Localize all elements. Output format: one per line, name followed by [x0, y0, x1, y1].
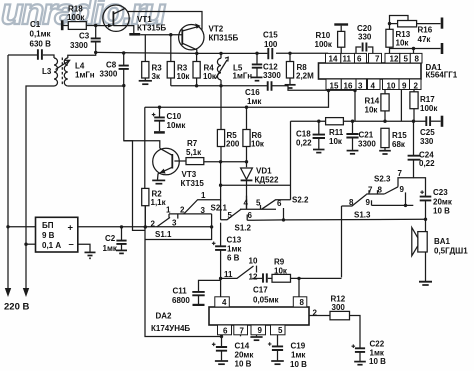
svg-text:C3: C3	[79, 32, 90, 41]
svg-text:630 В: 630 В	[30, 40, 52, 49]
svg-text:L4: L4	[75, 62, 85, 71]
svg-text:100к: 100к	[67, 13, 85, 22]
svg-text:0,22: 0,22	[419, 159, 435, 168]
svg-text:5: 5	[278, 326, 283, 335]
svg-text:BA1: BA1	[434, 237, 451, 246]
svg-text:C16: C16	[245, 88, 260, 97]
svg-text:2: 2	[180, 206, 185, 215]
svg-text:1мк: 1мк	[291, 351, 306, 360]
svg-text:10к: 10к	[274, 267, 288, 276]
svg-text:R14: R14	[365, 97, 380, 106]
svg-text:6800: 6800	[172, 296, 190, 305]
svg-text:1,1к: 1,1к	[151, 198, 167, 207]
svg-text:68к: 68к	[392, 140, 406, 149]
svg-text:C18: C18	[296, 130, 311, 139]
svg-text:7: 7	[398, 169, 403, 178]
svg-text:0,1мк: 0,1мк	[30, 30, 52, 39]
svg-text:8: 8	[415, 55, 420, 64]
svg-text:10к: 10к	[251, 140, 265, 149]
svg-text:R7: R7	[187, 139, 198, 148]
svg-text:1: 1	[201, 191, 206, 200]
svg-text:10к: 10к	[396, 39, 410, 48]
svg-text:VD1: VD1	[256, 167, 272, 176]
svg-text:16: 16	[344, 82, 353, 91]
svg-text:1мГн: 1мГн	[233, 72, 253, 81]
svg-text:R17: R17	[420, 95, 435, 104]
svg-text:3300: 3300	[263, 71, 281, 80]
svg-text:4: 4	[222, 298, 227, 307]
svg-text:S1.2: S1.2	[235, 224, 252, 233]
svg-text:1мк: 1мк	[247, 97, 262, 106]
svg-text:7: 7	[368, 186, 373, 195]
svg-text:20мк: 20мк	[433, 198, 453, 207]
svg-text:12: 12	[249, 273, 258, 282]
svg-text:100: 100	[264, 40, 278, 49]
svg-text:C25: C25	[420, 128, 435, 137]
svg-text:S2.2: S2.2	[292, 196, 309, 205]
svg-text:6: 6	[248, 211, 253, 220]
svg-text:КП315Б: КП315Б	[209, 34, 239, 43]
svg-text:S2.1: S2.1	[211, 204, 228, 213]
svg-text:10к: 10к	[365, 106, 379, 115]
svg-text:6: 6	[223, 327, 228, 336]
svg-text:47к: 47к	[418, 35, 432, 44]
svg-text:7: 7	[240, 327, 245, 336]
svg-text:+: +	[68, 223, 74, 234]
svg-text:10 В: 10 В	[290, 360, 307, 369]
svg-text:DA2: DA2	[156, 312, 173, 321]
svg-text:VT3: VT3	[182, 170, 197, 179]
svg-text:R11: R11	[329, 128, 344, 137]
svg-text:10мк: 10мк	[167, 121, 187, 130]
svg-text:11: 11	[343, 55, 352, 64]
svg-text:9 В: 9 В	[42, 231, 55, 240]
svg-text:К564ГГ1: К564ГГ1	[426, 71, 458, 80]
svg-text:R9: R9	[274, 258, 285, 267]
svg-text:10к: 10к	[329, 137, 343, 146]
svg-text:10 В: 10 В	[433, 207, 450, 216]
svg-text:10к: 10к	[177, 72, 191, 81]
svg-text:1: 1	[166, 206, 171, 215]
svg-text:330: 330	[358, 33, 372, 42]
svg-text:11: 11	[224, 270, 233, 279]
svg-text:S1.1: S1.1	[155, 230, 172, 239]
svg-text:330: 330	[420, 137, 434, 146]
svg-text:10 В: 10 В	[235, 360, 252, 369]
svg-text:12: 12	[390, 55, 399, 64]
svg-text:C17: C17	[253, 286, 268, 295]
svg-text:–: –	[69, 239, 74, 250]
svg-text:8: 8	[378, 186, 383, 195]
svg-text:КТ315Б: КТ315Б	[137, 24, 166, 33]
svg-text:C19: C19	[291, 342, 306, 351]
svg-text:4: 4	[244, 199, 249, 208]
svg-text:10к: 10к	[203, 72, 217, 81]
svg-text:5: 5	[256, 199, 261, 208]
svg-text:5,1к: 5,1к	[186, 148, 202, 157]
svg-text:0,1 А: 0,1 А	[42, 241, 61, 250]
svg-text:15: 15	[330, 82, 339, 91]
svg-text:300: 300	[332, 303, 346, 312]
svg-text:2: 2	[313, 309, 318, 318]
svg-text:20мк: 20мк	[235, 351, 255, 360]
svg-text:C15: C15	[263, 31, 278, 40]
svg-text:R15: R15	[392, 131, 407, 140]
svg-text:10: 10	[249, 257, 258, 266]
svg-text:7: 7	[375, 55, 380, 64]
svg-text:S2.3: S2.3	[374, 175, 391, 184]
svg-text:БП: БП	[42, 221, 54, 230]
svg-text:3300: 3300	[100, 70, 118, 79]
svg-text:9: 9	[400, 185, 405, 194]
svg-text:6 В: 6 В	[227, 254, 240, 263]
svg-text:100к: 100к	[315, 40, 333, 49]
svg-text:C21: C21	[359, 131, 374, 140]
svg-text:C1: C1	[30, 20, 41, 29]
svg-text:1мк: 1мк	[103, 244, 118, 253]
svg-text:4: 4	[371, 82, 376, 91]
svg-text:200: 200	[226, 140, 240, 149]
svg-text:0,5ГДШ1: 0,5ГДШ1	[434, 247, 468, 256]
svg-text:C10: C10	[167, 112, 182, 121]
svg-text:14: 14	[329, 55, 338, 64]
svg-text:1мк: 1мк	[227, 245, 242, 254]
svg-text:0,05мк: 0,05мк	[253, 296, 279, 305]
svg-text:C8: C8	[106, 61, 117, 70]
svg-text:220 В: 220 В	[4, 302, 29, 313]
svg-text:КТ315: КТ315	[181, 179, 205, 188]
svg-text:C2: C2	[105, 234, 116, 243]
svg-text:9: 9	[366, 198, 371, 207]
svg-text:8: 8	[349, 198, 354, 207]
svg-text:C23: C23	[433, 188, 448, 197]
svg-text:8: 8	[300, 298, 305, 307]
svg-text:3: 3	[358, 82, 363, 91]
svg-text:C13: C13	[227, 236, 242, 245]
svg-text:L3: L3	[42, 67, 52, 76]
svg-text:10 В: 10 В	[369, 357, 386, 366]
svg-text:0,22: 0,22	[296, 139, 312, 148]
svg-text:VT2: VT2	[209, 25, 224, 34]
svg-text:C14: C14	[235, 342, 250, 351]
svg-text:5: 5	[228, 211, 233, 220]
svg-text:2: 2	[151, 220, 156, 229]
svg-text:3300: 3300	[358, 140, 376, 149]
svg-text:C22: C22	[370, 340, 385, 349]
svg-text:3к: 3к	[152, 72, 161, 81]
svg-text:R10: R10	[316, 31, 331, 40]
svg-text:К174УН4Б: К174УН4Б	[151, 324, 190, 333]
svg-text:6: 6	[357, 55, 362, 64]
svg-text:КД522: КД522	[255, 176, 279, 185]
svg-text:2: 2	[414, 82, 419, 91]
svg-text:9: 9	[402, 82, 407, 91]
svg-text:C11: C11	[173, 287, 188, 296]
svg-text:10: 10	[387, 82, 396, 91]
svg-text:5: 5	[404, 55, 409, 64]
svg-text:3300: 3300	[70, 41, 88, 50]
svg-text:3: 3	[172, 219, 177, 228]
svg-text:1мГн: 1мГн	[75, 71, 95, 80]
svg-text:2,2М: 2,2М	[296, 72, 314, 81]
svg-text:6: 6	[277, 199, 282, 208]
svg-text:S1.3: S1.3	[354, 211, 371, 220]
svg-text:9: 9	[258, 326, 263, 335]
svg-text:R16: R16	[418, 26, 433, 35]
svg-text:3: 3	[201, 206, 206, 215]
svg-text:100к: 100к	[420, 104, 438, 113]
